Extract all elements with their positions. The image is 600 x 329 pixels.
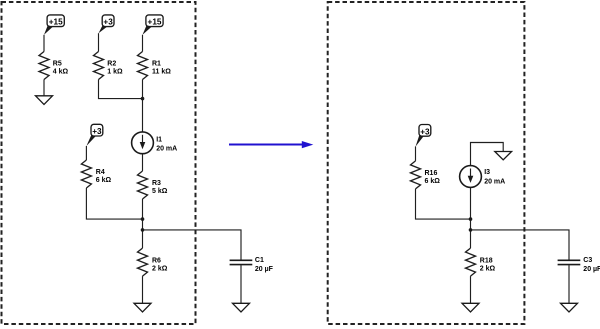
- svg-text:20 µF: 20 µF: [583, 266, 600, 273]
- svg-text:R3: R3: [152, 180, 161, 187]
- svg-text:I1: I1: [156, 136, 162, 143]
- svg-text:+3: +3: [420, 127, 430, 136]
- svg-text:6 kΩ: 6 kΩ: [425, 178, 441, 185]
- svg-text:R1: R1: [152, 60, 161, 67]
- svg-text:+3: +3: [92, 127, 102, 136]
- svg-text:R4: R4: [96, 169, 105, 176]
- svg-text:5 kΩ: 5 kΩ: [152, 188, 168, 195]
- svg-text:11 kΩ: 11 kΩ: [152, 69, 171, 76]
- svg-text:+15: +15: [148, 18, 162, 27]
- svg-text:1 kΩ: 1 kΩ: [107, 69, 123, 76]
- svg-text:R5: R5: [53, 60, 62, 67]
- svg-text:20 µF: 20 µF: [255, 266, 274, 273]
- svg-text:20 mA: 20 mA: [156, 145, 177, 152]
- svg-text:+15: +15: [49, 18, 63, 27]
- svg-text:+3: +3: [103, 18, 113, 27]
- svg-text:4 kΩ: 4 kΩ: [53, 69, 69, 76]
- svg-text:R2: R2: [107, 60, 116, 67]
- svg-text:I3: I3: [484, 169, 490, 176]
- svg-text:C1: C1: [255, 257, 264, 264]
- svg-text:20 mA: 20 mA: [484, 178, 505, 185]
- svg-text:6 kΩ: 6 kΩ: [96, 177, 112, 184]
- svg-text:R6: R6: [152, 257, 161, 264]
- svg-text:2 kΩ: 2 kΩ: [480, 266, 496, 273]
- svg-text:R18: R18: [480, 257, 493, 264]
- svg-text:C3: C3: [583, 257, 592, 264]
- svg-text:R16: R16: [425, 170, 438, 177]
- svg-text:2 kΩ: 2 kΩ: [152, 266, 168, 273]
